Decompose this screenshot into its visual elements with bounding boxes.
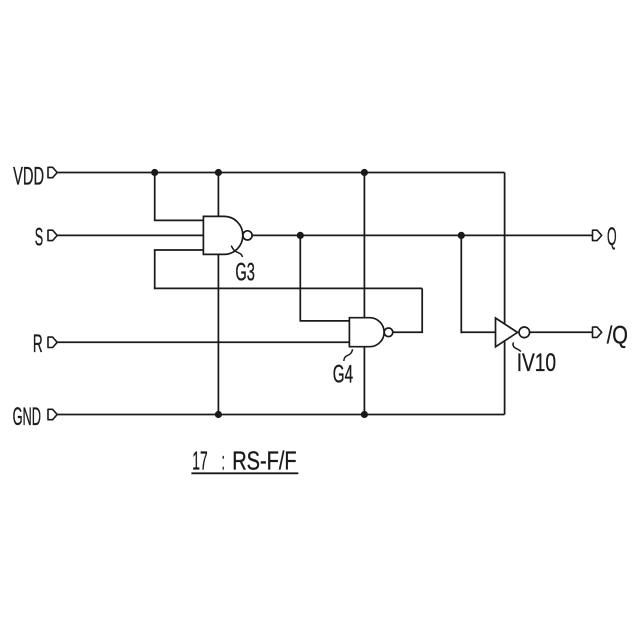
wire G4 top input feed <box>300 320 350 322</box>
wire feedback horizontal <box>154 287 422 289</box>
svg-text:R: R <box>33 330 43 358</box>
junction VDD / x=154.7 <box>151 169 158 176</box>
svg-text:RS-F/F: RS-F/F <box>232 446 296 476</box>
svg-text:G3: G3 <box>235 259 255 287</box>
nand gate G3 <box>203 216 242 254</box>
output bubble IV10 <box>519 327 530 338</box>
junction GND / x=364.4 <box>361 411 368 418</box>
leader line G4 <box>344 349 353 361</box>
svg-text:/Q: /Q <box>607 322 628 350</box>
svg-text:Q: Q <box>607 223 617 251</box>
terminal VDD <box>48 167 57 177</box>
wire Q branch down to IV10 at x=461.3 <box>460 235 462 333</box>
junction VDD / x=218.4 <box>215 169 222 176</box>
wire IV10 power vertical at x=504.6 <box>504 173 506 415</box>
wire VDD branch vertical at x=154.7 <box>154 173 156 221</box>
wire G3 top input feed <box>154 219 204 221</box>
output bubble G3 <box>243 231 252 240</box>
wire G4 output to feedback corner <box>393 331 423 333</box>
svg-text:17: 17 <box>192 446 207 476</box>
nand gate G4 <box>349 318 384 347</box>
caption underline <box>191 472 298 474</box>
svg-text:GND: GND <box>13 403 41 431</box>
wire Q branch down to G4 input at x=300.3 <box>299 235 301 321</box>
wire VDD to G3 power vertical at x=218.4 <box>217 173 219 415</box>
svg-text:S: S <box>35 223 43 251</box>
wire Q line from G3 output <box>252 234 593 236</box>
wire S to G3 middle input <box>57 234 203 236</box>
wire IV10 input feed <box>461 331 495 333</box>
svg-text:IV10: IV10 <box>517 349 556 377</box>
leader line G3 <box>231 246 242 257</box>
wire feedback riser at x=154.7 <box>154 250 156 289</box>
svg-text:G4: G4 <box>333 361 353 389</box>
wire R to G4 bottom input <box>57 341 349 343</box>
terminal R <box>48 337 57 347</box>
wire VDD rail <box>57 172 505 174</box>
terminal S <box>48 230 57 240</box>
junction Q line / x=300.3 <box>297 232 304 239</box>
junction VDD / x=364.4 <box>361 169 368 176</box>
wire /Q line from IV10 output <box>530 331 593 333</box>
leader line IV10 <box>513 342 521 351</box>
terminal Q <box>593 230 602 240</box>
output bubble G4 <box>384 328 393 337</box>
junction GND / x=218.4 <box>215 411 222 418</box>
terminal GND <box>48 409 57 419</box>
terminal /Q <box>593 327 602 337</box>
wire GND rail <box>57 414 505 416</box>
svg-text::: : <box>222 446 225 476</box>
junction Q line / x=461.3 <box>458 232 465 239</box>
svg-text:VDD: VDD <box>13 162 44 190</box>
wire VDD to G4 power vertical at x=364.4 <box>363 173 365 415</box>
inverter IV10 <box>496 318 518 347</box>
wire feedback vertical at x=422.2 <box>421 288 423 332</box>
wire G3 bottom input feed <box>154 249 204 251</box>
